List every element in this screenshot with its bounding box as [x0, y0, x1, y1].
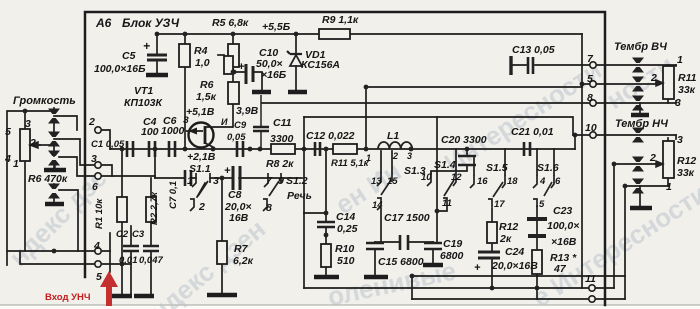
svg-text:1000: 1000: [161, 125, 185, 137]
svg-text:6,2к: 6,2к: [233, 255, 254, 267]
svg-text:6: 6: [92, 181, 98, 193]
svg-text:1: 1: [366, 153, 371, 163]
svg-text:17: 17: [494, 199, 505, 210]
svg-text:47: 47: [553, 263, 567, 275]
svg-text:С15 6800: С15 6800: [378, 256, 424, 268]
svg-text:2: 2: [29, 137, 36, 149]
svg-text:R9 1,1к: R9 1,1к: [322, 14, 359, 26]
svg-text:1: 1: [187, 175, 193, 187]
svg-text:10: 10: [585, 122, 597, 134]
svg-text:R12: R12: [499, 221, 518, 233]
svg-text:33к: 33к: [677, 167, 695, 179]
svg-text:С20 3300: С20 3300: [441, 134, 487, 146]
svg-text:2: 2: [650, 72, 657, 84]
svg-text:3: 3: [25, 118, 31, 130]
svg-text:R8 2к: R8 2к: [266, 158, 294, 170]
svg-text:+: +: [224, 165, 231, 177]
svg-text:S1.1: S1.1: [189, 163, 211, 175]
svg-text:S1.4: S1.4: [434, 159, 456, 171]
svg-text:С23: С23: [553, 205, 572, 217]
svg-text:С3: С3: [132, 229, 145, 240]
svg-text:2: 2: [198, 201, 205, 213]
svg-text:2к: 2к: [499, 233, 512, 245]
svg-text:R7: R7: [234, 243, 249, 255]
svg-text:11: 11: [442, 198, 452, 209]
svg-text:1: 1: [677, 54, 683, 66]
svg-text:+: +: [238, 61, 245, 73]
svg-text:С11: С11: [273, 117, 292, 129]
svg-text:1: 1: [13, 158, 19, 170]
svg-text:0,05: 0,05: [227, 132, 246, 143]
svg-text:3,9В: 3,9В: [236, 105, 259, 117]
svg-text:18: 18: [507, 176, 518, 187]
svg-text:Тембр НЧ: Тембр НЧ: [615, 118, 668, 130]
svg-text:R10: R10: [335, 243, 354, 255]
svg-text:16: 16: [477, 176, 488, 187]
svg-text:С21 0,01: С21 0,01: [511, 126, 554, 138]
svg-text:R4: R4: [194, 45, 208, 57]
svg-text:5: 5: [5, 126, 11, 138]
svg-text:3: 3: [213, 175, 219, 187]
svg-text:R11: R11: [678, 72, 697, 84]
svg-text:А6: А6: [95, 16, 112, 30]
svg-text:L1: L1: [387, 130, 399, 142]
svg-text:9: 9: [278, 175, 284, 187]
svg-text:Тембр ВЧ: Тембр ВЧ: [614, 41, 667, 53]
svg-text:С17 1500: С17 1500: [384, 212, 430, 224]
svg-text:R6: R6: [200, 79, 214, 91]
svg-text:100,0×: 100,0×: [547, 220, 579, 232]
svg-text:R2 2,7к: R2 2,7к: [149, 191, 160, 225]
svg-text:R6 470к: R6 470к: [28, 173, 68, 185]
svg-text:5: 5: [587, 73, 593, 85]
svg-text:×16Б: ×16Б: [261, 69, 287, 81]
svg-text:15: 15: [387, 176, 398, 187]
svg-text:6: 6: [555, 176, 561, 187]
svg-text:Речь: Речь: [287, 190, 312, 202]
svg-text:3: 3: [677, 134, 683, 146]
svg-text:1,0: 1,0: [195, 57, 210, 69]
svg-text:С14: С14: [336, 211, 355, 223]
svg-text:4: 4: [93, 240, 100, 252]
svg-text:+: +: [474, 262, 481, 274]
svg-text:11: 11: [585, 273, 596, 285]
svg-text:20,0×16В: 20,0×16В: [491, 260, 538, 272]
svg-text:КП103К: КП103К: [124, 97, 164, 109]
svg-text:S1.6: S1.6: [537, 162, 559, 174]
svg-text:R12: R12: [677, 155, 696, 167]
svg-text:5: 5: [539, 199, 545, 210]
svg-text:3300: 3300: [270, 133, 294, 145]
svg-text:S1.2: S1.2: [286, 175, 308, 187]
svg-text:S1.5: S1.5: [486, 162, 508, 174]
svg-text:10: 10: [421, 172, 432, 183]
svg-text:6800: 6800: [440, 250, 464, 262]
svg-text:3: 3: [675, 97, 681, 109]
svg-text:С19: С19: [443, 238, 462, 250]
svg-text:100: 100: [141, 126, 159, 138]
svg-text:5: 5: [96, 271, 102, 283]
svg-text:Вход УНЧ: Вход УНЧ: [45, 292, 91, 303]
svg-text:С1 0,05: С1 0,05: [91, 139, 125, 150]
svg-text:2: 2: [88, 116, 95, 128]
svg-text:2: 2: [649, 152, 656, 164]
svg-text:2: 2: [392, 151, 398, 161]
svg-text:4: 4: [539, 176, 546, 187]
svg-text:Громкость: Громкость: [13, 95, 76, 107]
svg-text:R11 5,1к: R11 5,1к: [331, 158, 370, 169]
svg-text:С13 0,05: С13 0,05: [512, 44, 555, 56]
svg-text:3: 3: [91, 153, 97, 165]
svg-text:1,5к: 1,5к: [196, 91, 217, 103]
svg-text:+5,1В: +5,1В: [186, 106, 215, 118]
svg-text:КС156А: КС156А: [301, 59, 340, 71]
svg-text:16В: 16В: [229, 212, 249, 224]
svg-text:0,25: 0,25: [337, 223, 358, 235]
svg-text:И: И: [221, 117, 228, 127]
svg-text:Блок УЗЧ: Блок УЗЧ: [122, 16, 180, 30]
svg-text:1: 1: [666, 181, 672, 193]
svg-text:8: 8: [266, 202, 272, 214]
svg-text:3: 3: [407, 151, 412, 161]
svg-text:4: 4: [4, 153, 11, 165]
svg-text:+: +: [143, 39, 150, 53]
svg-text:VT1: VT1: [134, 85, 153, 97]
svg-text:×16В: ×16В: [551, 236, 577, 248]
svg-text:13: 13: [371, 176, 382, 187]
svg-text:С7 0,1: С7 0,1: [168, 181, 179, 209]
svg-text:С12 0,022: С12 0,022: [306, 130, 355, 142]
svg-text:12: 12: [451, 172, 462, 183]
svg-text:8: 8: [587, 92, 593, 104]
svg-text:С2: С2: [116, 229, 129, 240]
svg-text:R1 10к: R1 10к: [94, 198, 105, 229]
svg-text:510: 510: [337, 255, 355, 267]
svg-text:+2,1В: +2,1В: [187, 151, 216, 163]
svg-text:+5,5Б: +5,5Б: [262, 21, 291, 33]
svg-text:С5: С5: [122, 50, 136, 62]
svg-text:С9: С9: [234, 120, 247, 131]
svg-text:R5 6,8к: R5 6,8к: [212, 17, 249, 29]
svg-text:0,047: 0,047: [139, 255, 163, 266]
svg-text:100,0×16Б: 100,0×16Б: [94, 63, 146, 75]
svg-text:14: 14: [372, 200, 383, 211]
svg-text:33к: 33к: [678, 84, 696, 96]
svg-text:С24: С24: [505, 246, 524, 258]
svg-text:З: З: [183, 115, 189, 125]
svg-text:0,01: 0,01: [119, 255, 138, 266]
svg-text:С8: С8: [228, 189, 242, 201]
